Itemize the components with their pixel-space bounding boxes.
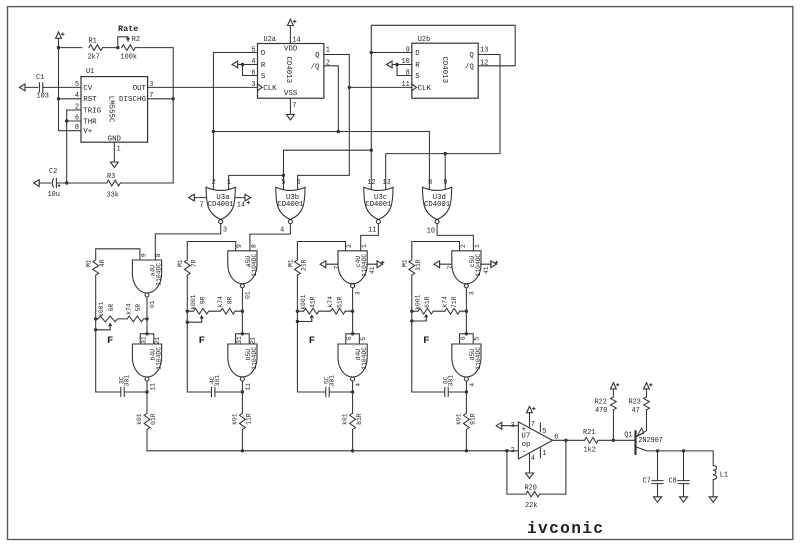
svg-text:U2a: U2a: [264, 36, 276, 44]
svg-text:3: 3: [251, 81, 255, 89]
svg-text:51R: 51R: [336, 296, 343, 308]
svg-text:11: 11: [402, 81, 410, 89]
svg-text:OUT: OUT: [133, 85, 147, 93]
svg-text:01: 01: [149, 300, 156, 308]
svg-text:11: 11: [245, 383, 252, 391]
svg-text:k74: k74: [125, 303, 132, 315]
svg-text:D: D: [415, 50, 420, 58]
svg-text:5: 5: [360, 337, 367, 341]
svg-text:5R: 5R: [135, 304, 142, 312]
svg-text:61R: 61R: [424, 296, 431, 308]
svg-text:Q: Q: [315, 52, 320, 60]
svg-text:7: 7: [200, 202, 204, 210]
svg-text:1104DC: 1104DC: [475, 254, 482, 277]
svg-text:CLK: CLK: [263, 85, 277, 93]
svg-text:8: 8: [75, 124, 79, 132]
svg-text:301: 301: [123, 375, 130, 387]
svg-text:R: R: [261, 62, 266, 70]
svg-text:301: 301: [447, 375, 454, 387]
svg-text:12: 12: [367, 179, 375, 187]
svg-text:9: 9: [236, 244, 243, 248]
svg-text:10: 10: [402, 58, 410, 66]
svg-text:k74: k74: [441, 296, 448, 308]
svg-text:5: 5: [251, 46, 255, 54]
svg-text:41: 41: [369, 266, 376, 274]
svg-text:8: 8: [155, 253, 162, 257]
svg-text:3: 3: [149, 81, 153, 89]
svg-text:1104DC: 1104DC: [361, 254, 368, 277]
svg-text:3: 3: [355, 291, 362, 295]
svg-text:1: 1: [542, 450, 546, 458]
svg-text:op: op: [522, 441, 531, 449]
svg-text:k01: k01: [341, 413, 348, 425]
svg-text:Q: Q: [469, 52, 474, 60]
svg-text:CD4001: CD4001: [277, 201, 304, 209]
svg-text:8: 8: [406, 69, 410, 77]
svg-text:2: 2: [460, 244, 467, 248]
svg-text:47: 47: [632, 407, 640, 415]
svg-text:/Q: /Q: [311, 64, 320, 72]
svg-text:7: 7: [333, 265, 340, 269]
svg-text:/Q: /Q: [465, 64, 474, 72]
svg-text:U1: U1: [86, 68, 94, 76]
svg-text:U2b: U2b: [418, 36, 430, 44]
svg-text:301: 301: [328, 375, 335, 387]
svg-text:k001: k001: [414, 294, 421, 309]
svg-text:103: 103: [37, 93, 49, 101]
svg-text:R2: R2: [132, 36, 140, 44]
svg-text:4R: 4R: [99, 259, 106, 267]
svg-text:F: F: [309, 335, 315, 347]
svg-text:21: 21: [154, 337, 161, 345]
svg-text:7: 7: [531, 421, 535, 429]
svg-text:1104DC: 1104DC: [251, 347, 258, 370]
svg-text:VSS: VSS: [284, 90, 298, 98]
svg-text:2: 2: [346, 244, 353, 248]
svg-text:R: R: [415, 62, 420, 70]
svg-text:31: 31: [140, 336, 147, 344]
svg-text:DISCHG: DISCHG: [119, 96, 146, 104]
svg-text:R23: R23: [629, 399, 641, 407]
svg-text:Rate: Rate: [118, 24, 138, 34]
svg-text:1104DC: 1104DC: [361, 347, 368, 370]
svg-text:S: S: [415, 73, 420, 81]
svg-text:F: F: [199, 335, 205, 347]
svg-text:1104DC: 1104DC: [475, 347, 482, 370]
svg-text:22k: 22k: [525, 502, 537, 510]
svg-text:41: 41: [483, 266, 490, 274]
svg-text:4: 4: [75, 92, 79, 100]
svg-text:2N2907: 2N2907: [638, 437, 663, 445]
svg-text:11: 11: [149, 383, 156, 391]
svg-text:k01: k01: [231, 413, 238, 425]
svg-text:4: 4: [251, 58, 255, 66]
svg-text:k01: k01: [455, 413, 462, 425]
svg-text:LM555C: LM555C: [107, 96, 115, 123]
svg-text:7: 7: [447, 265, 454, 269]
svg-text:1: 1: [117, 146, 121, 154]
svg-text:7: 7: [292, 102, 296, 110]
svg-text:01: 01: [244, 291, 251, 299]
svg-text:R3: R3: [107, 173, 115, 181]
svg-text:6: 6: [251, 69, 255, 77]
svg-text:8: 8: [428, 179, 432, 187]
svg-text:V+: V+: [83, 128, 92, 136]
svg-text:21R: 21R: [301, 259, 308, 271]
svg-text:4: 4: [531, 455, 535, 463]
svg-text:CV: CV: [83, 85, 92, 93]
svg-text:2k7: 2k7: [88, 54, 100, 62]
svg-text:k74: k74: [217, 296, 224, 308]
svg-text:THR: THR: [83, 118, 97, 126]
svg-text:21: 21: [250, 337, 257, 345]
svg-text:3: 3: [223, 227, 227, 235]
svg-text:9: 9: [406, 46, 410, 54]
svg-text:4: 4: [469, 383, 476, 387]
svg-text:GND: GND: [108, 135, 122, 143]
svg-text:10: 10: [427, 228, 435, 236]
svg-text:2: 2: [212, 179, 216, 187]
svg-text:RST: RST: [83, 96, 97, 104]
svg-text:4: 4: [280, 227, 284, 235]
svg-text:VDD: VDD: [284, 46, 298, 54]
svg-text:1104DC: 1104DC: [156, 347, 163, 370]
svg-text:M1: M1: [86, 259, 93, 267]
svg-text:CD4001: CD4001: [365, 201, 392, 209]
svg-text:C2: C2: [49, 168, 57, 176]
svg-text:R20: R20: [525, 485, 537, 493]
svg-text:CD4001: CD4001: [424, 201, 451, 209]
svg-text:10u: 10u: [48, 191, 60, 199]
svg-text:6: 6: [346, 336, 353, 340]
svg-text:C1: C1: [36, 74, 44, 82]
svg-text:S: S: [261, 73, 266, 81]
svg-text:R1: R1: [89, 38, 97, 46]
svg-text:R21: R21: [583, 429, 595, 437]
svg-text:01R: 01R: [150, 413, 157, 425]
svg-text:301: 301: [214, 375, 221, 387]
svg-text:13: 13: [480, 46, 488, 54]
svg-text:3: 3: [511, 422, 515, 430]
svg-text:33k: 33k: [107, 192, 119, 200]
svg-text:7: 7: [149, 92, 153, 100]
svg-text:1: 1: [361, 244, 368, 248]
svg-text:470: 470: [595, 407, 607, 415]
svg-text:9: 9: [443, 179, 447, 187]
svg-text:8R: 8R: [226, 296, 233, 304]
svg-text:8: 8: [250, 244, 257, 248]
svg-text:2: 2: [75, 103, 79, 111]
svg-text:7R: 7R: [190, 259, 197, 267]
svg-text:6: 6: [554, 434, 558, 442]
svg-text:TRIG: TRIG: [83, 107, 101, 115]
svg-text:9R: 9R: [200, 296, 207, 304]
svg-text:6R: 6R: [108, 304, 115, 312]
svg-text:M1: M1: [287, 259, 294, 267]
svg-text:81R: 81R: [356, 413, 363, 425]
svg-text:14: 14: [292, 37, 300, 45]
svg-text:14: 14: [237, 202, 245, 210]
svg-text:11R: 11R: [246, 413, 253, 425]
svg-text:6: 6: [297, 179, 301, 187]
svg-text:k01: k01: [136, 413, 143, 425]
svg-text:ivconic: ivconic: [527, 520, 603, 538]
svg-text:CD4001: CD4001: [208, 201, 235, 209]
svg-text:CD4013: CD4013: [284, 57, 292, 84]
svg-text:100k: 100k: [121, 54, 138, 62]
svg-text:CD4013: CD4013: [440, 57, 448, 84]
svg-text:1k2: 1k2: [584, 447, 596, 455]
svg-text:31: 31: [236, 336, 243, 344]
svg-text:71R: 71R: [451, 296, 458, 308]
svg-text:M1: M1: [177, 259, 184, 267]
svg-text:M1: M1: [402, 259, 409, 267]
svg-text:D: D: [261, 50, 266, 58]
svg-text:6: 6: [75, 114, 79, 122]
svg-text:C8: C8: [669, 477, 677, 485]
svg-text:k001: k001: [190, 294, 197, 309]
svg-text:31R: 31R: [415, 259, 422, 271]
svg-text:2: 2: [511, 447, 515, 455]
svg-text:9: 9: [140, 253, 147, 257]
svg-text:41R: 41R: [310, 296, 317, 308]
svg-text:2: 2: [326, 59, 330, 67]
svg-text:1104DC: 1104DC: [251, 254, 258, 277]
svg-text:5: 5: [75, 81, 79, 89]
svg-text:CLK: CLK: [418, 85, 432, 93]
svg-text:1104DC: 1104DC: [156, 263, 163, 286]
svg-text:3: 3: [468, 291, 475, 295]
svg-text:5: 5: [474, 337, 481, 341]
svg-text:F: F: [423, 335, 429, 347]
svg-text:Q1: Q1: [624, 431, 632, 439]
svg-text:L1: L1: [720, 472, 728, 480]
svg-text:5: 5: [281, 179, 285, 187]
svg-text:1: 1: [326, 46, 330, 54]
svg-text:F: F: [107, 335, 113, 347]
svg-text:k001: k001: [300, 294, 307, 309]
svg-text:6: 6: [460, 336, 467, 340]
svg-text:12: 12: [480, 59, 488, 67]
svg-text:C7: C7: [643, 477, 651, 485]
svg-text:R22: R22: [595, 399, 607, 407]
svg-text:-: -: [522, 449, 526, 457]
svg-text:1: 1: [227, 179, 231, 187]
svg-text:4: 4: [355, 383, 362, 387]
svg-text:k001: k001: [98, 302, 105, 317]
svg-text:11: 11: [368, 227, 376, 235]
svg-text:U7: U7: [521, 433, 530, 441]
svg-text:k74: k74: [327, 296, 334, 308]
svg-text:1: 1: [474, 244, 481, 248]
svg-text:13: 13: [382, 179, 390, 187]
svg-text:5: 5: [542, 428, 546, 436]
svg-text:91R: 91R: [470, 413, 477, 425]
